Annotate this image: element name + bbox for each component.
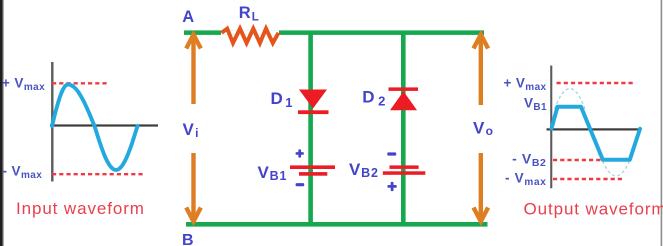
svg-text:D2: D2	[362, 88, 389, 109]
svg-text:VB1: VB1	[258, 163, 288, 183]
svg-text:Output waveform: Output waveform	[524, 200, 663, 219]
svg-text:- Vmax: - Vmax	[3, 164, 43, 182]
svg-text:A: A	[182, 8, 194, 26]
svg-text:+ Vmax: + Vmax	[2, 76, 45, 94]
svg-text:- VB2: - VB2	[512, 151, 546, 170]
svg-text:D1: D1	[271, 89, 296, 110]
svg-text:+ Vmax: + Vmax	[503, 76, 546, 94]
svg-text:Vi: Vi	[183, 120, 200, 140]
svg-text:RL: RL	[239, 4, 260, 24]
svg-text:Vo: Vo	[473, 119, 494, 139]
svg-text:B: B	[182, 232, 194, 246]
svg-text:Input waveform: Input waveform	[16, 199, 145, 218]
svg-text:VB2: VB2	[349, 160, 379, 180]
svg-text:VB1: VB1	[524, 96, 547, 114]
svg-text:- Vmax: - Vmax	[505, 171, 546, 189]
